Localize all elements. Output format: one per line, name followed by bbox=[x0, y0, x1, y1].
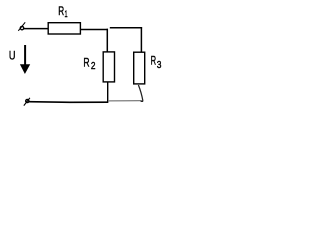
svg-text:R: R bbox=[83, 56, 89, 70]
arrow U (voltage arrow) bbox=[20, 45, 30, 74]
wire top-left (terminal to R1) bbox=[24, 28, 48, 30]
label R2 bbox=[83, 56, 95, 73]
resistor R3 bbox=[134, 52, 145, 84]
wire node A drop to R2 bbox=[106, 29, 108, 52]
terminal X2 (bottom-left) bbox=[24, 98, 30, 106]
resistor R1 bbox=[48, 23, 80, 34]
wire node A to R3 branch (top) bbox=[110, 27, 142, 29]
wire R3 bottom lead (slanted) bbox=[138, 85, 143, 101]
wire bottom (terminal to R2 junction) bbox=[29, 101, 109, 104]
wire bottom gray (R2 junction to R3) bbox=[108, 100, 142, 102]
resistor R2 bbox=[103, 52, 114, 82]
junction corner R3 bottom bbox=[141, 100, 144, 102]
label R1 bbox=[58, 6, 67, 20]
label R3 bbox=[151, 54, 162, 71]
wire drop to R3 bbox=[140, 27, 142, 52]
svg-text:1: 1 bbox=[65, 9, 68, 20]
svg-text:2: 2 bbox=[91, 61, 96, 72]
wire R1 to node A bbox=[81, 29, 108, 31]
wire R2 bottom lead bbox=[107, 82, 109, 103]
svg-text:R: R bbox=[58, 6, 64, 18]
svg-text:R: R bbox=[151, 54, 157, 68]
svg-text:U: U bbox=[9, 49, 16, 63]
svg-text:3: 3 bbox=[157, 60, 162, 71]
terminal X1 (top-left) bbox=[18, 22, 25, 31]
